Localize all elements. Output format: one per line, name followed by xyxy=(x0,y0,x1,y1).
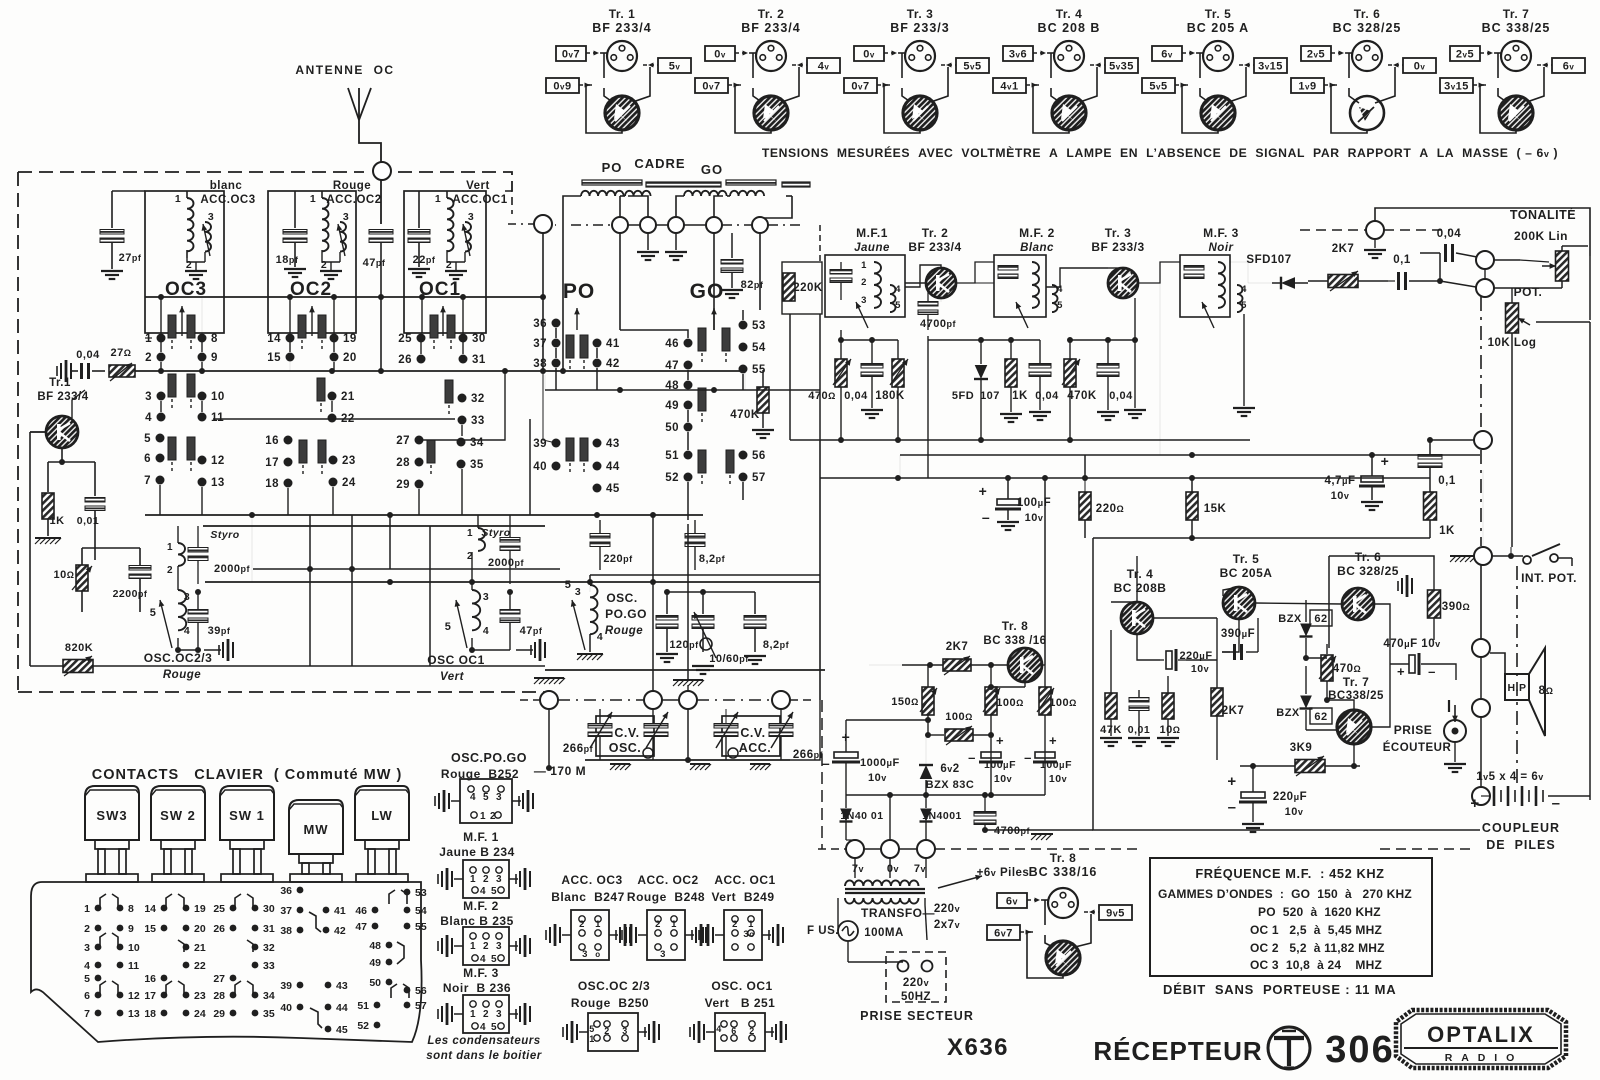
svg-text:9: 9 xyxy=(211,352,218,364)
svg-text:10: 10 xyxy=(128,942,140,954)
svg-text:Tr. 4: Tr. 4 xyxy=(1127,567,1154,581)
svg-text:0v: 0v xyxy=(863,49,875,61)
svg-text:10Ω: 10Ω xyxy=(1160,724,1181,736)
svg-text:R A D I O: R A D I O xyxy=(1445,1052,1518,1064)
svg-text:39: 39 xyxy=(280,980,292,992)
capacitor 0,1 b xyxy=(1418,455,1442,460)
svg-text:Rouge B248: Rouge B248 xyxy=(627,890,705,904)
svg-text:–: – xyxy=(1552,795,1561,812)
svg-text:4,7μF: 4,7μF xyxy=(1324,475,1355,487)
diode zener 6v2 BZX83C xyxy=(920,765,933,779)
capacitor 4700pf ps xyxy=(974,812,996,817)
dash-dot battery line xyxy=(1516,566,1518,786)
node CV row 549 xyxy=(540,691,558,709)
svg-text:150Ω: 150Ω xyxy=(891,696,919,708)
wire bottom right frame xyxy=(821,700,823,849)
svg-text:8: 8 xyxy=(128,903,134,915)
keyboard contact group MW xyxy=(297,887,304,894)
wire right rail 1430 xyxy=(1430,439,1474,441)
wire mf1 bus340 xyxy=(841,339,898,341)
svg-text:55: 55 xyxy=(415,921,427,933)
svg-text:14: 14 xyxy=(144,903,156,915)
svg-text:40: 40 xyxy=(280,1002,292,1014)
coil ACC.OC2 secondary xyxy=(340,222,346,252)
svg-text:GAMMES D’ONDES : GO 150 à: GAMMES D’ONDES : GO 150 à 270 KHZ xyxy=(1158,887,1412,901)
svg-text:4: 4 xyxy=(184,625,190,637)
svg-text:ANTENNE OC: ANTENNE OC xyxy=(295,63,394,77)
svg-text:OSC. OC1: OSC. OC1 xyxy=(711,979,772,993)
coil OSC.OC2/3 top xyxy=(178,543,185,566)
svg-text:7v: 7v xyxy=(914,863,926,875)
svg-text:62: 62 xyxy=(1314,613,1327,625)
ground node 676 xyxy=(675,233,677,250)
svg-text:4: 4 xyxy=(480,1022,486,1033)
svg-text:0,04: 0,04 xyxy=(844,390,868,402)
keyboard blob outline xyxy=(31,882,422,1042)
svg-text:Blanc B247: Blanc B247 xyxy=(551,890,625,904)
wire ps mid xyxy=(846,794,1045,796)
svg-text:2: 2 xyxy=(483,874,489,885)
node ps c xyxy=(917,840,935,858)
svg-text:35: 35 xyxy=(263,1008,275,1020)
svg-text:PRISE: PRISE xyxy=(1394,723,1433,737)
coil OSC.OC1 top xyxy=(478,528,485,551)
svg-text:45: 45 xyxy=(336,1024,348,1036)
svg-text:1: 1 xyxy=(861,260,867,271)
svg-text:33: 33 xyxy=(471,415,485,427)
svg-text:15: 15 xyxy=(144,923,156,935)
svg-text:0,04: 0,04 xyxy=(76,349,100,361)
wire osc oc2/3 xyxy=(177,638,179,650)
svg-text:o: o xyxy=(595,950,600,959)
capacitor 120pf xyxy=(666,592,668,614)
ground under 18pf xyxy=(284,268,306,270)
wire bus y440 xyxy=(790,439,1250,441)
wire Tr.1 emitter xyxy=(61,448,63,462)
svg-text:ACC.OC1: ACC.OC1 xyxy=(452,194,507,206)
node right 1483 xyxy=(1474,431,1492,449)
svg-text:29: 29 xyxy=(213,1008,225,1020)
svg-text:220μF: 220μF xyxy=(1273,791,1307,803)
coil GO cadre xyxy=(684,191,727,196)
ground above node 688 xyxy=(673,679,703,681)
chassis near int pot xyxy=(1450,555,1474,557)
ground Tr3 emitter xyxy=(1134,298,1136,408)
node CV row 688 xyxy=(679,691,697,709)
svg-text:3: 3 xyxy=(496,874,502,885)
ground above node 549 xyxy=(534,677,564,679)
svg-text:15K: 15K xyxy=(1204,503,1227,515)
svg-text:–: – xyxy=(968,750,976,765)
svg-text:+: + xyxy=(979,483,988,499)
dash CV row xyxy=(520,699,540,701)
svg-text:3: 3 xyxy=(145,391,152,403)
wire CV ACC xyxy=(725,709,727,724)
svg-text:Vert: Vert xyxy=(466,180,490,192)
svg-text:PO: PO xyxy=(563,280,595,303)
svg-text:1: 1 xyxy=(435,193,441,205)
svg-text:BC 338/25: BC 338/25 xyxy=(1482,21,1551,35)
svg-text:0v: 0v xyxy=(887,863,899,875)
svg-text:BC 205 A: BC 205 A xyxy=(1187,21,1249,35)
svg-text:46: 46 xyxy=(665,338,679,350)
svg-text:Rouge: Rouge xyxy=(163,669,201,681)
capacitor styro 2000pf OC1 xyxy=(500,538,520,543)
svg-text:3: 3 xyxy=(660,949,666,960)
svg-text:INT. POT.: INT. POT. xyxy=(1521,571,1577,585)
svg-text:2000pf: 2000pf xyxy=(488,557,524,569)
svg-text:53: 53 xyxy=(752,320,766,332)
switch contacts 21,22 (OC2) xyxy=(328,392,337,401)
svg-text:10Ω: 10Ω xyxy=(54,569,75,581)
svg-text:0,1: 0,1 xyxy=(1393,254,1411,266)
svg-text:Tr. 3: Tr. 3 xyxy=(907,7,934,21)
wire pot right rail xyxy=(1589,256,1591,320)
wire ps top xyxy=(846,719,928,721)
svg-text:47: 47 xyxy=(665,360,679,372)
svg-text:39: 39 xyxy=(533,438,547,450)
svg-text:1: 1 xyxy=(145,333,152,345)
switch contacts 25,26,30,31 (OC1) xyxy=(417,334,426,343)
svg-text:BC 328/25: BC 328/25 xyxy=(1333,21,1402,35)
speaker HP 8ohm xyxy=(1505,674,1529,700)
svg-text:5v5: 5v5 xyxy=(963,61,981,73)
wire 714 node down xyxy=(713,233,715,330)
svg-text:32: 32 xyxy=(471,393,485,405)
svg-text:1K: 1K xyxy=(1439,525,1455,537)
svg-text:20: 20 xyxy=(194,923,206,935)
svg-text:OSC.OC 2/3: OSC.OC 2/3 xyxy=(578,979,650,993)
svg-text:2: 2 xyxy=(861,277,867,288)
svg-text:Noir: Noir xyxy=(1209,242,1234,254)
svg-text:sont dans le boitier: sont dans le boitier xyxy=(426,1050,541,1062)
resistor 10ohm amp xyxy=(1162,693,1174,719)
wire bus y670 xyxy=(545,669,825,671)
svg-text:470μF 10v: 470μF 10v xyxy=(1383,638,1440,650)
diode 1N4001 a xyxy=(840,809,852,822)
resistor 470K mf xyxy=(1064,359,1076,387)
svg-text:1N4001: 1N4001 xyxy=(922,810,962,822)
svg-text:4: 4 xyxy=(470,792,476,803)
svg-text:4: 4 xyxy=(84,960,90,972)
svg-text:BC 205A: BC 205A xyxy=(1220,566,1273,580)
node ps b xyxy=(881,840,899,858)
svg-text:1: 1 xyxy=(470,874,476,885)
svg-text:ACC.: ACC. xyxy=(739,741,772,755)
svg-text:107: 107 xyxy=(980,390,1000,402)
svg-text:51: 51 xyxy=(665,450,679,462)
svg-text:18: 18 xyxy=(144,1008,156,1020)
dash-dot node row OC1-PO xyxy=(508,223,534,225)
capacitor 27pf (ACC.OC3) xyxy=(112,190,145,192)
wire mf row bus xyxy=(928,339,1040,341)
coil ACC.OC1 secondary xyxy=(465,222,471,252)
svg-text:Rouge: Rouge xyxy=(605,625,643,637)
svg-text:1: 1 xyxy=(167,542,173,553)
node ps a xyxy=(846,840,864,858)
wire osc row top xyxy=(590,574,820,576)
key SW3 xyxy=(85,786,139,840)
svg-text:21: 21 xyxy=(194,942,206,954)
svg-text:27Ω: 27Ω xyxy=(111,347,132,359)
resistor 15K xyxy=(1186,492,1198,520)
svg-text:0,04: 0,04 xyxy=(1109,390,1133,402)
wire 1085 top xyxy=(1084,455,1086,478)
svg-text:28: 28 xyxy=(396,457,410,469)
dashed RF section border left xyxy=(17,172,19,692)
svg-text:LW: LW xyxy=(371,808,393,823)
svg-text:M.F. 2: M.F. 2 xyxy=(1019,226,1055,240)
svg-text:31: 31 xyxy=(472,354,486,366)
resistor 470K (GO) xyxy=(757,387,769,413)
svg-text:Tr. 5: Tr. 5 xyxy=(1233,552,1260,566)
svg-text:62: 62 xyxy=(1314,711,1327,723)
svg-text:5: 5 xyxy=(491,954,497,965)
wire 1485 node up xyxy=(1484,269,1486,279)
svg-text:BF 233/4: BF 233/4 xyxy=(592,21,651,35)
svg-text:16: 16 xyxy=(144,973,156,985)
svg-text:+: + xyxy=(1227,773,1236,790)
svg-text:38: 38 xyxy=(533,358,547,370)
svg-text:GO: GO xyxy=(701,162,723,177)
svg-text:6v7: 6v7 xyxy=(994,928,1013,940)
svg-text:Tr. 6: Tr. 6 xyxy=(1354,7,1381,21)
svg-text:ACC. OC2: ACC. OC2 xyxy=(637,873,698,887)
dash to node xyxy=(1300,229,1366,231)
svg-text:3v15: 3v15 xyxy=(1258,61,1283,73)
wire CV bottom bus xyxy=(585,759,790,761)
svg-text:5v: 5v xyxy=(669,61,681,73)
svg-text:0v: 0v xyxy=(1414,61,1426,73)
svg-text:54: 54 xyxy=(415,905,427,917)
svg-text:180K: 180K xyxy=(875,390,905,402)
svg-text:38: 38 xyxy=(280,925,292,937)
svg-text:9v5: 9v5 xyxy=(1106,908,1125,920)
ACC.OC1 box outline xyxy=(404,191,486,333)
switch contacts 27,28,29 (OC1) xyxy=(415,436,424,445)
svg-text:OSC OC1: OSC OC1 xyxy=(427,653,485,667)
svg-text:0,04: 0,04 xyxy=(1437,228,1461,240)
wire 620 node down xyxy=(619,233,621,330)
svg-text:6v: 6v xyxy=(1563,61,1575,73)
wire cadre PO xyxy=(563,196,581,233)
coil OSC.OC2/3 main xyxy=(178,590,186,630)
capacitor 0,04 (a) xyxy=(861,364,883,369)
svg-text:2: 2 xyxy=(483,1009,489,1020)
diode BZX 62 lower xyxy=(1300,696,1312,709)
switch contacts 46,47,53,54,55 (GO) xyxy=(684,339,693,348)
svg-text:4: 4 xyxy=(716,1024,722,1034)
wire HP xyxy=(1455,680,1457,700)
svg-text:52: 52 xyxy=(665,472,679,484)
svg-text:5: 5 xyxy=(589,1024,595,1034)
diode BZX 62 upper xyxy=(1300,624,1312,637)
svg-text:5: 5 xyxy=(84,973,90,985)
svg-text:5: 5 xyxy=(565,579,572,591)
dashed RF section border top xyxy=(18,171,364,173)
svg-text:100Ω: 100Ω xyxy=(1049,697,1077,709)
svg-text:4: 4 xyxy=(480,954,486,965)
capacitor 22pf (ACC.OC1) xyxy=(418,191,420,228)
svg-text:6: 6 xyxy=(84,990,90,1002)
svg-text:27: 27 xyxy=(213,973,225,985)
svg-text:5: 5 xyxy=(445,621,452,633)
svg-text:ACC. OC1: ACC. OC1 xyxy=(714,873,775,887)
variable capacitor CV OSC left xyxy=(588,724,612,729)
svg-text:8,2pf: 8,2pf xyxy=(763,639,790,651)
svg-text:10v: 10v xyxy=(868,772,887,784)
svg-text:35: 35 xyxy=(470,459,484,471)
svg-text:BF 233/3: BF 233/3 xyxy=(890,21,949,35)
svg-text:5FD: 5FD xyxy=(952,390,974,402)
switch contacts 14,15,19,20 (OC2) xyxy=(286,334,295,343)
svg-text:43: 43 xyxy=(336,980,348,992)
svg-text:Tr. 7: Tr. 7 xyxy=(1503,7,1530,21)
ferrite bar xyxy=(582,180,642,185)
svg-text:10v: 10v xyxy=(1331,490,1350,502)
capacitor 0,01 (Tr.1) xyxy=(94,462,96,496)
ground under 27pf xyxy=(101,270,123,272)
svg-text:+: + xyxy=(1381,453,1390,469)
svg-text:5: 5 xyxy=(491,1022,497,1033)
svg-text:48: 48 xyxy=(369,940,381,952)
capacitor 47pf OC1 xyxy=(500,610,520,615)
svg-text:+: + xyxy=(1049,733,1057,748)
svg-text:10v: 10v xyxy=(1191,663,1209,675)
wire long v545 xyxy=(544,375,546,390)
svg-text:18: 18 xyxy=(265,478,279,490)
svg-text:5: 5 xyxy=(150,607,157,619)
svg-text:M.F. 1: M.F. 1 xyxy=(463,830,499,844)
svg-text:Tr. 1: Tr. 1 xyxy=(609,7,636,21)
svg-text:27pf: 27pf xyxy=(119,252,142,264)
wire bus y515 xyxy=(145,514,703,516)
svg-text:BF 233/3: BF 233/3 xyxy=(1091,240,1144,254)
switch contacts 39,40,43,44,45 (PO) xyxy=(552,439,561,448)
svg-text:6v: 6v xyxy=(1161,49,1173,61)
M.F.2 internals xyxy=(998,266,1018,271)
wire ps nodes xyxy=(845,838,847,840)
svg-text:11: 11 xyxy=(128,960,139,972)
svg-text:51: 51 xyxy=(357,1000,369,1012)
svg-text:+: + xyxy=(1470,795,1479,812)
svg-text:10v: 10v xyxy=(1025,512,1044,524)
svg-text:2K7: 2K7 xyxy=(1332,243,1355,255)
svg-text:100Ω: 100Ω xyxy=(945,711,973,723)
svg-text:SFD107: SFD107 xyxy=(1246,254,1291,266)
svg-text:10v: 10v xyxy=(1049,773,1067,785)
svg-text:1v9: 1v9 xyxy=(1298,81,1316,93)
wire bus y582 xyxy=(205,581,820,583)
svg-text:2: 2 xyxy=(84,923,90,935)
svg-text:42: 42 xyxy=(606,358,620,370)
ground MF3 xyxy=(1243,314,1245,406)
svg-text:0v7: 0v7 xyxy=(702,81,720,93)
svg-text:Blanc B 235: Blanc B 235 xyxy=(440,914,514,928)
svg-text:OC 3 10,8 à 24 MHZ: OC 3 10,8 à 24 MHZ xyxy=(1250,958,1382,972)
wire bus y538 xyxy=(1093,537,1430,539)
wires GO matrix xyxy=(620,330,688,338)
svg-text:OSC.: OSC. xyxy=(606,591,637,605)
svg-text:5: 5 xyxy=(144,433,151,445)
svg-text:0v: 0v xyxy=(714,49,726,61)
wire 820K bus xyxy=(30,665,63,667)
svg-text:Tr. 3: Tr. 3 xyxy=(1105,226,1132,240)
svg-text:3: 3 xyxy=(861,295,867,306)
capacitor 4700pf xyxy=(918,302,938,307)
svg-text:DE PILES: DE PILES xyxy=(1486,838,1555,852)
resistor 47K amp xyxy=(1105,693,1117,719)
wire emitter bus xyxy=(82,547,140,549)
svg-text:13: 13 xyxy=(211,477,225,489)
feedthrough Tr6 xyxy=(1401,578,1403,594)
svg-text:3: 3 xyxy=(575,586,581,598)
svg-text:Vert: Vert xyxy=(440,671,465,683)
svg-text:34: 34 xyxy=(470,437,484,449)
M.F.1 internals xyxy=(830,270,852,275)
capacitor 82pf mid xyxy=(685,534,705,539)
svg-text:1000μF: 1000μF xyxy=(860,757,900,769)
ground under 22pf xyxy=(408,268,430,270)
svg-text:4700pf: 4700pf xyxy=(920,318,956,330)
svg-text:RÉCEPTEUR: RÉCEPTEUR xyxy=(1093,1036,1262,1066)
svg-text:1: 1 xyxy=(467,528,473,539)
svg-text:BC 328/25: BC 328/25 xyxy=(1337,564,1399,578)
svg-text:2: 2 xyxy=(749,1026,755,1036)
wire 760 node down xyxy=(759,233,761,310)
svg-text:2x7v: 2x7v xyxy=(934,919,960,931)
svg-text:3: 3 xyxy=(582,949,588,960)
svg-text:120pf: 120pf xyxy=(669,639,699,651)
svg-text:ÉCOUTEUR: ÉCOUTEUR xyxy=(1383,741,1452,754)
svg-text:TRANSFO—: TRANSFO— xyxy=(861,906,935,920)
svg-text:2: 2 xyxy=(655,919,661,930)
M.F.3 internals xyxy=(1184,266,1204,271)
svg-text:12: 12 xyxy=(128,990,140,1002)
wire tone xyxy=(1439,253,1441,281)
coil ACC.OC2 primary xyxy=(322,198,329,251)
svg-text:ACC.OC2: ACC.OC2 xyxy=(326,194,381,206)
svg-text:24: 24 xyxy=(342,477,356,489)
svg-text:13: 13 xyxy=(128,1008,140,1020)
svg-text:1: 1 xyxy=(480,811,486,822)
coil ACC.OC1 primary xyxy=(447,198,454,251)
coil PO cadre xyxy=(581,191,624,196)
node 1481 c xyxy=(1472,639,1490,657)
svg-text:266pf: 266pf xyxy=(563,743,594,755)
svg-text:200K Lin: 200K Lin xyxy=(1514,229,1568,243)
svg-text:0v7: 0v7 xyxy=(851,81,869,93)
svg-text:3: 3 xyxy=(496,1009,502,1020)
wire bus y455 xyxy=(900,454,1480,456)
capacitor 18pf (ACC.OC2) xyxy=(294,191,296,228)
wire bus y297 xyxy=(145,296,545,298)
switch contacts 51,52 (GO) xyxy=(684,451,693,460)
svg-text:Jaune B 234: Jaune B 234 xyxy=(439,845,515,859)
capacitor 2200pf xyxy=(129,566,151,571)
dash-dot node row xyxy=(555,224,556,226)
CV OSC box xyxy=(596,716,654,756)
svg-text:1N40 01: 1N40 01 xyxy=(840,810,883,822)
wire long bus y390b xyxy=(545,389,820,391)
switch contacts 36,37,38,41,42 (PO) xyxy=(552,319,561,328)
svg-text:5v35: 5v35 xyxy=(1109,61,1134,73)
svg-text:+6v Piles: +6v Piles xyxy=(977,867,1030,879)
wire Tr.1 base xyxy=(30,431,46,433)
svg-text:1K: 1K xyxy=(49,515,64,527)
svg-text:TONALITÉ: TONALITÉ xyxy=(1510,207,1576,222)
svg-text:ACC. OC3: ACC. OC3 xyxy=(561,873,622,887)
